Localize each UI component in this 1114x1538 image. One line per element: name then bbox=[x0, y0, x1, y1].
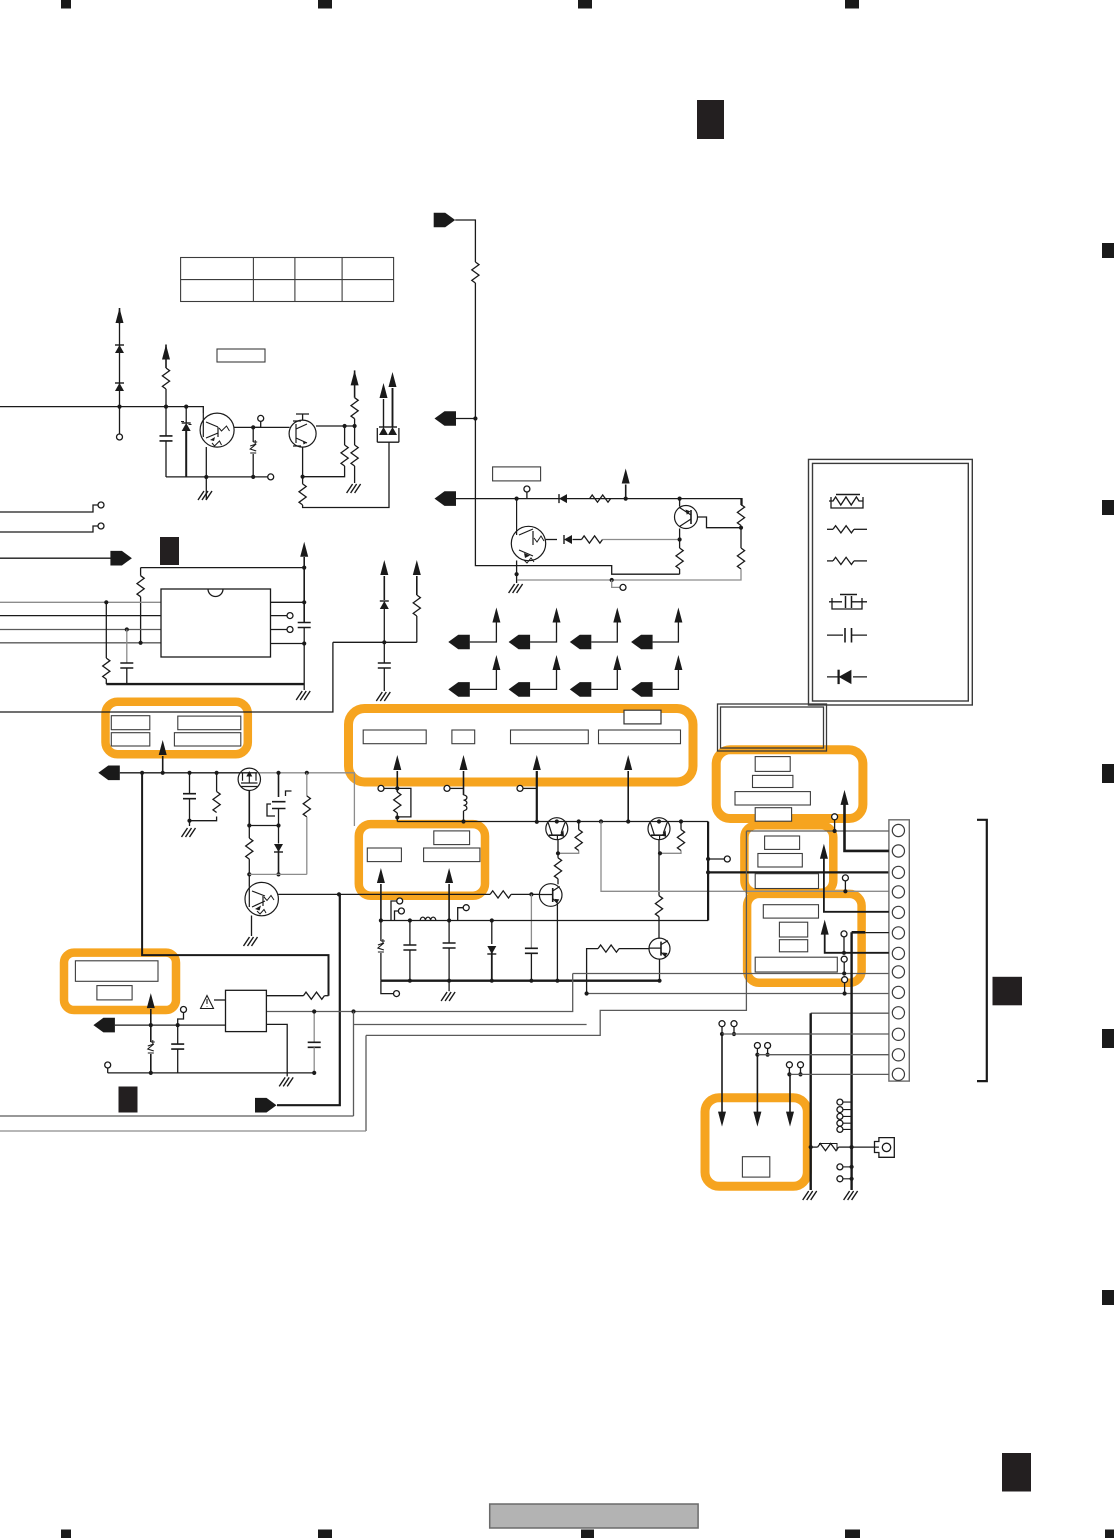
label box A3 bbox=[111, 733, 150, 746]
power arrow bbox=[380, 383, 388, 398]
label box G2 bbox=[367, 848, 401, 862]
power arrow up R-branch bbox=[162, 345, 170, 360]
terminal stub bbox=[444, 785, 450, 791]
black block marker bottom left bbox=[119, 1087, 138, 1113]
resistor R18 bbox=[655, 896, 662, 917]
registration mark bottom 4 bbox=[845, 1530, 860, 1538]
resistor R6 bbox=[472, 262, 479, 283]
Q3 base wire to divider bbox=[698, 517, 742, 528]
Q2 right wire bbox=[316, 425, 355, 427]
MOSFET Q6 bbox=[238, 768, 260, 790]
double border box above C bbox=[718, 704, 827, 751]
label box C4 bbox=[755, 808, 791, 822]
node dot bbox=[585, 991, 589, 995]
bottom rail under Q1 bbox=[166, 476, 268, 478]
wire from flag to main vertical bbox=[455, 220, 475, 262]
node dot bbox=[149, 1071, 153, 1075]
flag grid unit r1c1 bbox=[448, 608, 500, 650]
vertical trunk wire bbox=[475, 283, 679, 574]
long bus wire lower 1 bbox=[0, 1115, 354, 1117]
resistor R13 bbox=[105, 602, 107, 658]
Q8 emitter bbox=[659, 959, 661, 981]
connector pin circles bbox=[892, 824, 904, 1080]
black block marker right of connector bbox=[993, 977, 1023, 1006]
signal flag right-pointing bbox=[110, 551, 132, 566]
node dot bbox=[187, 771, 191, 775]
vertical to pin4 rail bbox=[601, 822, 889, 892]
registration mark top 4 bbox=[845, 0, 859, 9]
pin8 rail bbox=[573, 973, 889, 975]
test stub circles on trunk bbox=[837, 1099, 852, 1132]
node dot bbox=[408, 979, 412, 983]
ground under rail bbox=[448, 981, 450, 992]
node dot bbox=[353, 424, 357, 428]
resistor R2 bbox=[344, 426, 346, 445]
power arrow up from U2 area bbox=[147, 993, 155, 1008]
node dot bbox=[176, 1023, 180, 1027]
fusible capacitor C6 bbox=[278, 773, 280, 797]
label box B0 on border bbox=[624, 710, 661, 724]
legend capacitor symbol bbox=[827, 628, 867, 643]
thermistor TH1 bbox=[252, 427, 254, 442]
capacitor C1 bbox=[160, 436, 173, 441]
bracket right of connector bbox=[977, 820, 987, 1081]
ground bbox=[376, 692, 390, 701]
capacitor C2 bbox=[126, 630, 128, 664]
label box near Q1 bbox=[217, 349, 265, 362]
terminal circle bbox=[253, 421, 261, 427]
label box C2 bbox=[753, 775, 793, 787]
capacitor C5 bbox=[189, 773, 191, 794]
terminal stub b bbox=[395, 911, 399, 921]
signal flag input right-pointing bbox=[434, 213, 456, 228]
resistor R8 bbox=[582, 536, 603, 543]
label box E4 bbox=[755, 957, 837, 972]
input stub wire 1 bbox=[0, 505, 98, 512]
node dot bbox=[395, 786, 399, 790]
power arrow up bbox=[622, 469, 630, 484]
node dot bbox=[739, 526, 743, 530]
IC input wire 4 bbox=[0, 642, 161, 644]
down arrow into box H bbox=[789, 1074, 791, 1111]
node dot bbox=[117, 405, 121, 409]
node dot bbox=[139, 641, 143, 645]
test point chain circle 2 bbox=[843, 962, 845, 973]
label box E2 bbox=[779, 922, 807, 937]
highlight box G (orange) bbox=[359, 824, 485, 896]
dual diode pack D3 bbox=[377, 388, 399, 442]
transistor T6 bbox=[648, 818, 670, 840]
node dot bbox=[301, 475, 305, 479]
flag grid unit r1c4 bbox=[631, 608, 682, 650]
node dot bbox=[247, 872, 251, 876]
resistor R15 bbox=[578, 822, 580, 830]
signal flag left-pointing bbox=[435, 411, 457, 426]
bottom local rail bbox=[108, 1072, 315, 1074]
transistor Q7 bbox=[539, 884, 562, 907]
power arrow stem 4 bbox=[624, 755, 632, 770]
pin1 wire bbox=[746, 830, 889, 832]
wire to Q7 base bbox=[511, 893, 539, 895]
resistor R17 bbox=[680, 822, 682, 830]
pin12 wire bbox=[757, 1054, 889, 1056]
pin5 feed arrow bbox=[820, 844, 828, 859]
pin11 wire bbox=[722, 1033, 889, 1035]
power arrow up at IC right bbox=[300, 542, 308, 557]
label box E3 bbox=[779, 940, 807, 952]
power arrow stem 1 with fusible resistor bbox=[393, 755, 401, 770]
node dot bbox=[657, 819, 661, 823]
wire to Q3 emitter node bbox=[603, 539, 680, 541]
capacitor C3 bbox=[298, 623, 311, 628]
terminal circle stub on Q4 base bbox=[526, 492, 528, 499]
main supply wire top left bbox=[0, 407, 203, 413]
node dot bbox=[302, 600, 306, 604]
pin9 rail bbox=[587, 993, 889, 995]
node dot bbox=[833, 829, 837, 833]
transistor Q5 (digital) bbox=[245, 882, 278, 915]
supply rail y=821.5 bbox=[397, 821, 708, 823]
capacitor C4 bbox=[383, 642, 385, 663]
power arrow branch B bbox=[413, 560, 421, 575]
label box F2 bbox=[97, 986, 132, 1000]
IC right pin 1 wire bbox=[271, 601, 305, 603]
node dot bbox=[535, 820, 539, 824]
diode D4 bbox=[559, 494, 567, 503]
Q2 top bar wire bbox=[296, 414, 309, 421]
pin3 rail bbox=[708, 871, 889, 873]
signal flag left-pointing bbox=[93, 1018, 115, 1033]
terminal stub bbox=[612, 580, 620, 587]
node dot bbox=[251, 475, 255, 479]
main ground trunk x851 bbox=[850, 932, 852, 1190]
diode D2 bbox=[115, 383, 124, 391]
bus P4 staircase bbox=[366, 831, 746, 1035]
Q8 base resistor R19 bbox=[619, 948, 649, 950]
node dot bbox=[515, 497, 519, 501]
resistor R7 bbox=[590, 495, 611, 502]
bus P3 bbox=[354, 1024, 587, 1026]
input stub wire 2 bbox=[0, 526, 98, 532]
branch rail y642 bbox=[333, 641, 417, 643]
terminal circle bbox=[107, 1068, 109, 1073]
emitter return rail bbox=[249, 873, 306, 875]
transistor Q4 (digital) bbox=[511, 499, 545, 563]
ground bbox=[509, 584, 523, 593]
ground bbox=[803, 1191, 817, 1200]
ground bbox=[182, 828, 196, 837]
capacitor C7 branch bbox=[530, 894, 532, 948]
label box A4 bbox=[174, 733, 240, 746]
registration mark right 1 bbox=[1102, 243, 1114, 258]
power arrow up in box G left bbox=[377, 868, 385, 883]
diode D5 bbox=[564, 535, 572, 544]
power arrow stem 2 with inductor bbox=[460, 755, 468, 770]
wire flag to U2 bbox=[115, 1024, 226, 1026]
resistor R21 bbox=[248, 826, 250, 839]
test point chain circle 1 bbox=[843, 937, 845, 953]
long bus wire lower 2 bbox=[0, 1130, 366, 1132]
pin10 ground trunk bbox=[811, 1012, 889, 1014]
resistor R14 bbox=[413, 595, 420, 616]
legend resistor symbol 1 bbox=[827, 526, 867, 533]
resistor R22 bbox=[306, 773, 308, 796]
terminal stub pin1 bbox=[834, 820, 836, 831]
Q7 emitter down bbox=[556, 904, 558, 981]
flag grid unit r2c3 bbox=[570, 655, 622, 697]
node dot bbox=[447, 918, 451, 922]
node dot bbox=[343, 424, 347, 428]
node dot bbox=[149, 1023, 153, 1027]
Q5 emitter ground bbox=[251, 916, 253, 937]
node dot bbox=[843, 889, 847, 893]
signal flag right-pointing bbox=[255, 1098, 277, 1113]
ground bbox=[279, 1077, 293, 1086]
stub terminal bottom left of rail bbox=[381, 981, 394, 994]
thermistor TH2 bbox=[148, 1040, 155, 1053]
registration mark bottom 3 bbox=[581, 1530, 594, 1538]
gray title block bottom center bbox=[490, 1504, 698, 1528]
emitter to ground bbox=[205, 447, 207, 500]
resistor R10 bbox=[737, 548, 744, 569]
ground rail under IC bbox=[106, 683, 304, 685]
node dot bbox=[382, 640, 386, 644]
capacitor C8 bbox=[409, 921, 411, 946]
IC right pin 4 wire bbox=[271, 643, 305, 645]
wire triangle to U2 bbox=[214, 999, 226, 1001]
regulator IC U2 box bbox=[226, 990, 267, 1031]
power arrow up into box A bbox=[159, 740, 167, 755]
node dot bbox=[125, 627, 129, 631]
warning triangle bbox=[201, 996, 214, 1009]
node dot bbox=[461, 819, 465, 823]
power arrow feed bbox=[351, 370, 359, 385]
registration mark bottom 2 bbox=[318, 1530, 332, 1538]
node dot bbox=[302, 641, 306, 645]
resistor R4 bbox=[351, 398, 358, 419]
power arrow bbox=[389, 372, 397, 387]
label box F1 bbox=[75, 961, 158, 982]
label box D3 bbox=[755, 874, 818, 889]
ground bbox=[198, 491, 212, 500]
label box C1 bbox=[755, 757, 790, 772]
power arrow branch A bbox=[380, 560, 388, 575]
ground bbox=[347, 484, 361, 493]
transistor T5 bbox=[546, 818, 568, 840]
low rail wire bbox=[120, 772, 257, 774]
long wire to lower block bbox=[0, 642, 333, 712]
node dot bbox=[408, 918, 412, 922]
node dot bbox=[276, 823, 280, 827]
diode D7 bbox=[274, 844, 283, 852]
test stub circle lower 1 bbox=[843, 1166, 852, 1168]
highlight box C (orange) bbox=[716, 750, 863, 819]
transistor Q2 bbox=[289, 420, 316, 447]
highlight box A (orange) bbox=[106, 702, 248, 755]
ground bbox=[844, 1191, 858, 1200]
Q2 emitter resistor R3 bbox=[302, 447, 304, 484]
ground bbox=[244, 937, 258, 946]
highlight box H (orange) bbox=[705, 1098, 807, 1187]
node dot bbox=[187, 819, 191, 823]
test point chain circle 3 bbox=[844, 983, 846, 994]
IC right pin 2 stub bbox=[271, 615, 288, 617]
node dot bbox=[678, 497, 682, 501]
node dot bbox=[626, 819, 630, 823]
flag grid unit r2c1 bbox=[448, 655, 500, 697]
capacitor C11 bbox=[313, 1012, 315, 1043]
node dot bbox=[395, 815, 399, 819]
pin6 feed (thick trunk corner) bbox=[852, 931, 866, 934]
node dot bbox=[490, 979, 494, 983]
node dot bbox=[610, 578, 614, 582]
ground return rail (thick) bbox=[381, 980, 660, 982]
highlight box B (orange) bbox=[349, 709, 694, 783]
resistor R20 bbox=[190, 817, 217, 821]
node dot bbox=[140, 771, 144, 775]
wire Q2 emitter to diode pair bbox=[303, 442, 389, 507]
vertical riser x366 bbox=[365, 1035, 367, 1131]
Q3 emitter chain bbox=[679, 529, 681, 549]
thermistor branch bbox=[380, 921, 382, 942]
inductor L2 bbox=[420, 917, 436, 920]
capacitor C10 bbox=[177, 1025, 179, 1044]
resistor R23 bbox=[490, 891, 511, 898]
node dot bbox=[555, 979, 559, 983]
registration mark top 2 bbox=[318, 0, 332, 9]
trunk down to output flag bbox=[277, 894, 340, 1105]
wire to plug bbox=[852, 1146, 879, 1148]
node dot bbox=[556, 851, 560, 855]
node dot bbox=[251, 425, 255, 429]
resistor R1 bbox=[162, 368, 169, 389]
resistor R12 bbox=[140, 568, 142, 576]
IC input wire 3 bbox=[0, 629, 161, 631]
node dot bbox=[379, 918, 383, 922]
diode chain branch bbox=[119, 324, 121, 434]
node dot bbox=[215, 771, 219, 775]
MOSFET source down bbox=[248, 791, 250, 826]
node dot bbox=[678, 537, 682, 541]
node dot bbox=[302, 566, 306, 570]
jumper pair 2 bbox=[754, 1043, 770, 1057]
diode D6 bbox=[380, 601, 389, 609]
node dot bbox=[706, 870, 710, 874]
label box G3 bbox=[424, 848, 480, 862]
power arrow stem 3 bbox=[533, 755, 541, 770]
zener diode ZD1 bbox=[185, 407, 187, 423]
registration mark bottom 1 bbox=[61, 1530, 71, 1538]
terminal stub bbox=[517, 785, 523, 791]
fusible resistor FR2 bbox=[811, 1146, 818, 1148]
terminal circle bbox=[98, 502, 104, 508]
legend diode symbol bbox=[827, 670, 867, 684]
top rail of regulator bbox=[141, 567, 305, 569]
label box B3 bbox=[511, 730, 589, 744]
resistor R5 bbox=[351, 445, 358, 466]
power arrow up in box G right bbox=[445, 868, 453, 883]
label box E1 bbox=[763, 905, 818, 918]
node dot bbox=[161, 771, 165, 775]
node dot bbox=[490, 918, 494, 922]
node dot bbox=[104, 600, 108, 604]
node dot bbox=[529, 979, 533, 983]
diode D1 bbox=[115, 345, 124, 353]
inductor L1 bbox=[464, 795, 467, 811]
input wire to flag bbox=[0, 557, 111, 559]
node dot bbox=[276, 771, 280, 775]
registration mark right 2 bbox=[1102, 500, 1114, 515]
node dot bbox=[529, 892, 533, 896]
node dot bbox=[204, 475, 208, 479]
connector CN1 bbox=[889, 820, 909, 1081]
transistor Q1 (digital) bbox=[200, 413, 234, 447]
terminal stub bbox=[378, 785, 384, 791]
label box C3 bbox=[735, 792, 810, 805]
note box symbol legend (double border) bbox=[809, 459, 973, 705]
pin13 wire bbox=[789, 1073, 889, 1075]
flag grid unit r1c2 bbox=[509, 608, 561, 650]
black block marker mid left bbox=[160, 537, 179, 565]
label box H1 bbox=[742, 1157, 769, 1177]
node dot bbox=[247, 823, 251, 827]
highlight box E (orange) bbox=[747, 894, 862, 983]
IC input wire 2 bbox=[0, 615, 161, 617]
node dot bbox=[624, 497, 628, 501]
transistor Q8 bbox=[649, 938, 670, 959]
label box G1 bbox=[434, 831, 470, 845]
registration mark right 5 bbox=[1102, 1290, 1114, 1305]
terminal stub above bbox=[178, 1012, 184, 1025]
IC right pin 3 stub bbox=[271, 629, 288, 631]
terminal stub pin4 bbox=[844, 881, 846, 891]
label box D1 bbox=[765, 836, 800, 849]
Q3 collector to rail bbox=[679, 499, 681, 507]
T6 emitter chain bbox=[658, 839, 660, 896]
jumper pair 3 bbox=[786, 1062, 803, 1077]
label box above flag wire bbox=[493, 467, 541, 481]
pin7 feed arrow bbox=[821, 920, 829, 935]
label box B1 bbox=[363, 730, 426, 744]
link wire bbox=[249, 825, 278, 827]
node dot bbox=[599, 819, 603, 823]
mid distribution rail y=920.5 bbox=[381, 920, 708, 922]
ground bbox=[296, 691, 310, 700]
test stub circle lower 2 bbox=[843, 1178, 852, 1180]
node dot bbox=[658, 851, 662, 855]
fusible resistor FR1 bbox=[394, 792, 401, 813]
signal flag left-pointing bbox=[435, 491, 457, 506]
registration mark bottom 5 bbox=[1105, 1530, 1114, 1538]
terminal stub pin3 bbox=[708, 858, 724, 860]
node dot bbox=[276, 872, 280, 876]
flag grid unit r2c4 bbox=[631, 655, 682, 697]
black block marker bottom right bbox=[1002, 1453, 1031, 1492]
resistor R9 bbox=[741, 499, 742, 506]
black block marker top center bbox=[697, 100, 724, 139]
terminal circle bbox=[98, 523, 104, 529]
label box B2 bbox=[452, 730, 475, 744]
node dot bbox=[184, 405, 188, 409]
node dot bbox=[351, 1009, 355, 1013]
label box D2 bbox=[758, 854, 802, 868]
capacitor C9 bbox=[448, 921, 450, 944]
power arrow up D-branch bbox=[116, 308, 124, 323]
node dot bbox=[305, 771, 309, 775]
registration mark right 3 bbox=[1102, 764, 1114, 783]
T5 emitter chain bbox=[557, 839, 559, 858]
node dot bbox=[337, 892, 341, 896]
